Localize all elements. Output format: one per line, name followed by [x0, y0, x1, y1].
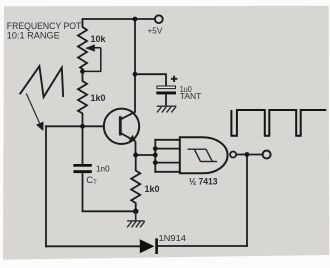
wire top rail [83, 18, 155, 20]
svg-text:10k: 10k [91, 34, 107, 44]
wire gate input 4 [155, 171, 180, 173]
wire +5V rail down to collector [134, 19, 136, 112]
wire gate input 2 [155, 148, 180, 150]
svg-text:1k0: 1k0 [145, 184, 160, 194]
annotation arrow to base node [26, 94, 43, 132]
svg-text:10:1 RANGE: 10:1 RANGE [7, 31, 60, 41]
junction dot emitter [133, 153, 138, 158]
sawtooth waveform symbol [20, 66, 63, 97]
nand gate U1 body [180, 137, 228, 173]
wire Ct top lead [82, 126, 84, 163]
wire gate output to terminal [236, 154, 262, 156]
junction dots gate input bus [153, 146, 158, 151]
svg-text:TANT: TANT [180, 92, 202, 101]
transistor Q1 emitter stroke with arrow [120, 133, 136, 155]
+5V terminal [155, 15, 163, 23]
wire input bus vertical [154, 140, 156, 172]
wire bottom feedback left [46, 245, 140, 247]
square waveform symbol [231, 110, 326, 136]
svg-text:+5V: +5V [148, 27, 163, 36]
wire base node horizontal [46, 125, 104, 127]
potentiometer R1 10k zigzag [78, 19, 87, 71]
ground below emitter resistor [127, 211, 145, 227]
wire gate input 3 [155, 162, 180, 164]
svg-text:½ 7413: ½ 7413 [189, 177, 218, 187]
transistor Q1 collector stroke [120, 112, 135, 120]
wire gate input 1 [155, 139, 180, 141]
svg-text:1k0: 1k0 [91, 93, 106, 103]
svg-text:1N914: 1N914 [159, 234, 187, 243]
wire output feedback vertical [246, 155, 248, 246]
resistor R3 1k0 emitter [131, 155, 140, 211]
junction dot emitter resistor bottom [133, 209, 139, 215]
junction dot top rail [133, 17, 138, 22]
resistor R2 1k0 [78, 71, 87, 126]
capacitor C2 1u0 TANT plates [156, 86, 176, 105]
svg-text:1n0: 1n0 [96, 165, 110, 174]
junction dot cap branch [133, 72, 138, 77]
wire left feedback vertical [45, 126, 47, 246]
plus sign for tantalum [171, 76, 177, 82]
schmitt hysteresis symbol [188, 149, 218, 161]
wire emitter to gate inputs [136, 154, 156, 156]
wire branch to tantalum cap [135, 74, 166, 86]
capacitor C1 1n0 plates [73, 164, 91, 173]
gate output bubble [230, 152, 236, 158]
transistor Q1 base bar [119, 116, 122, 135]
potentiometer wiper arrow [84, 44, 101, 71]
svg-text:FREQUENCY POT: FREQUENCY POT [7, 21, 82, 31]
junction dot base node [80, 124, 85, 129]
junction dot output [245, 152, 250, 157]
output terminal [263, 151, 271, 159]
junction dot pot bottom [80, 69, 85, 74]
wire bottom feedback right [158, 245, 247, 247]
wire Ct bottom lead [83, 173, 136, 211]
diode D1 1N914 [140, 238, 157, 254]
ground below tantalum [157, 106, 177, 112]
transistor Q1 circle [104, 109, 139, 144]
